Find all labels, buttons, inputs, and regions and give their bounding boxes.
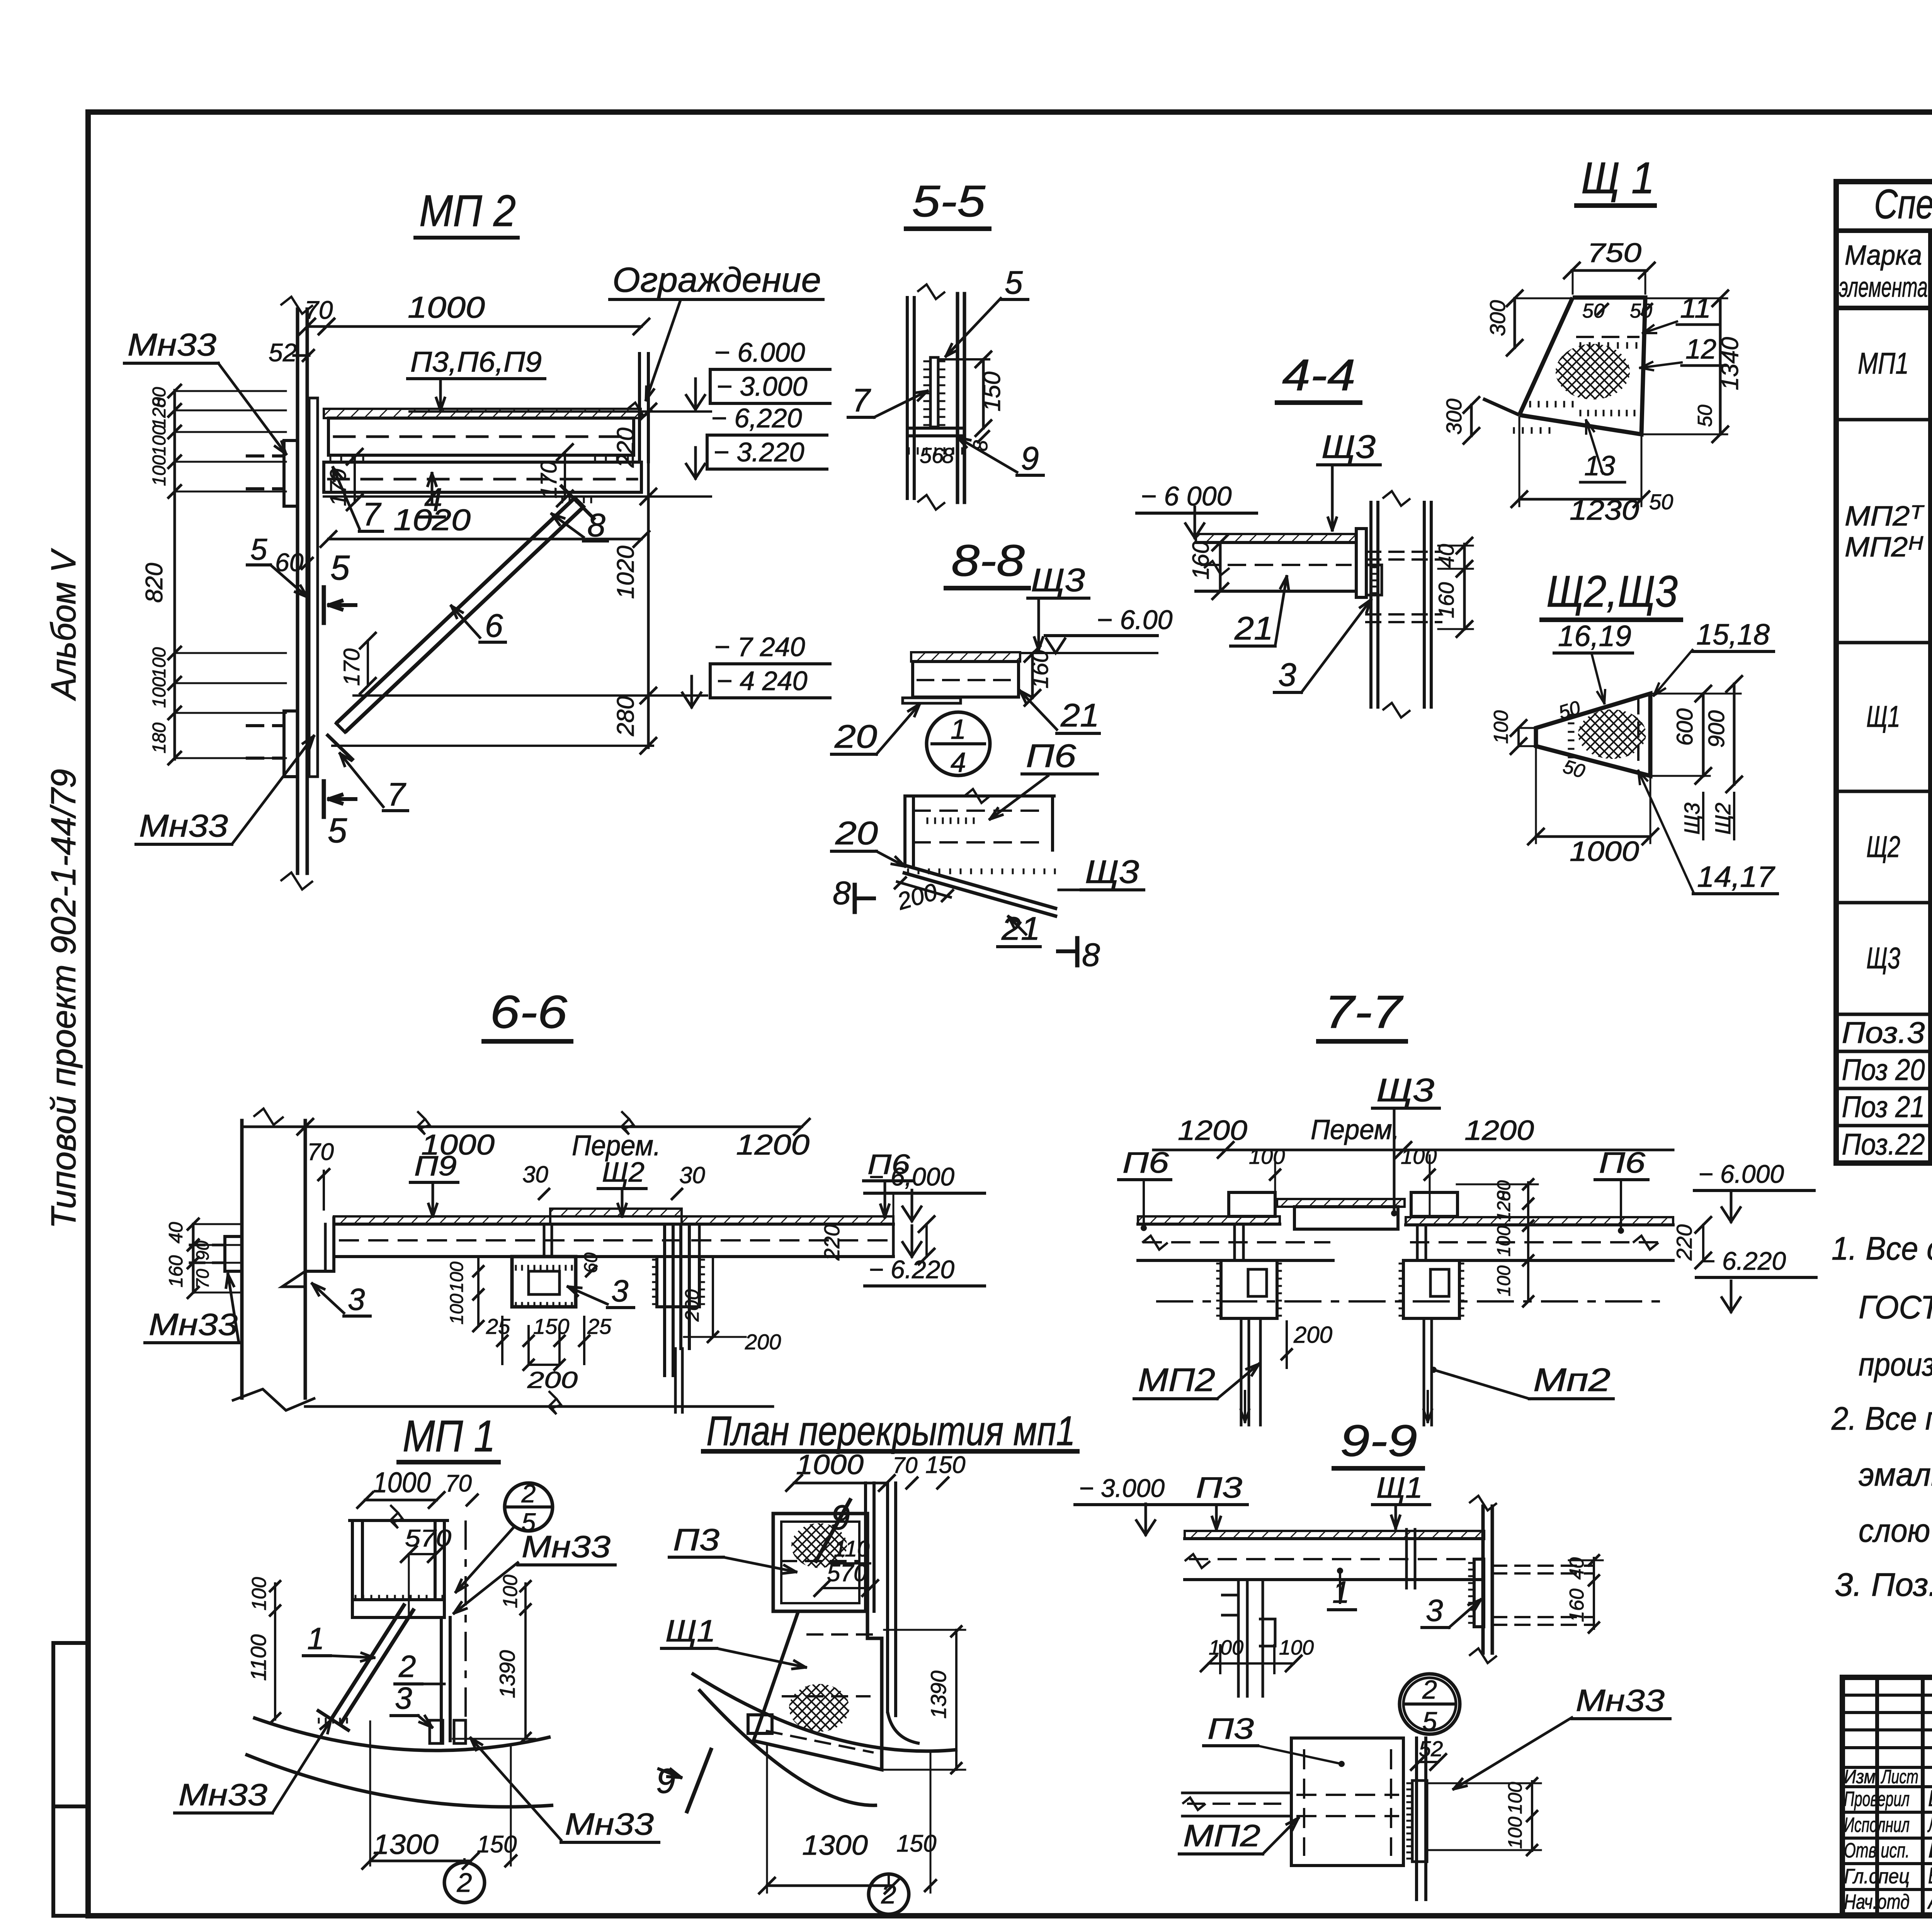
svg-text:Арсенов: Арсенов bbox=[1927, 1889, 1932, 1914]
svg-text:40: 40 bbox=[165, 1222, 187, 1243]
МП1: vertical beam going down bbox=[440, 1617, 443, 1741]
svg-text:2: 2 bbox=[1422, 1675, 1437, 1704]
svg-text:Мн33: Мн33 bbox=[1576, 1683, 1665, 1718]
svg-text:900: 900 bbox=[1704, 710, 1729, 748]
svg-text:300: 300 bbox=[1485, 300, 1510, 336]
svg-text:Мн33: Мн33 bbox=[179, 1777, 267, 1812]
svg-text:3: 3 bbox=[611, 1274, 629, 1308]
svg-text:2: 2 bbox=[521, 1479, 536, 1508]
svg-text:№№: №№ bbox=[1929, 246, 1932, 272]
svg-text:200: 200 bbox=[527, 1367, 578, 1393]
9-9 lower: right dims 100 100 bbox=[1531, 1781, 1533, 1851]
6-6: middle hanger box Щ2 bbox=[512, 1257, 576, 1307]
svg-text:100: 100 bbox=[1494, 1265, 1514, 1296]
svg-text:МП1: МП1 bbox=[1858, 346, 1909, 380]
svg-text:600: 600 bbox=[1672, 708, 1697, 746]
svg-text:160: 160 bbox=[165, 1255, 187, 1287]
Щ1: weld tick groups bottom bbox=[1529, 402, 1531, 406]
6-6: right deck piece continues bbox=[698, 1224, 701, 1257]
svg-text:100: 100 bbox=[1490, 710, 1512, 744]
svg-text:100: 100 bbox=[1504, 1782, 1526, 1814]
svg-text:− 6.220: − 6.220 bbox=[1700, 1247, 1786, 1275]
Щ2Щ3: funnel plate outline bbox=[1536, 694, 1650, 776]
Щ1: dim 300 left rotated bbox=[1514, 298, 1516, 348]
page frame: left border bbox=[85, 112, 91, 1916]
5-5: weld stitch strip bbox=[930, 357, 938, 427]
svg-text:Щ3: Щ3 bbox=[1031, 562, 1085, 598]
4-4: bracket with weld bbox=[1366, 565, 1382, 595]
4-4: beam with hatched top bbox=[1196, 534, 1356, 543]
svg-text:120: 120 bbox=[149, 397, 170, 428]
МП2: section mark 5 lower bbox=[322, 781, 326, 817]
svg-text:Щ2: Щ2 bbox=[602, 1157, 645, 1188]
9-9: right dims 40 160 bbox=[1593, 1558, 1595, 1629]
svg-text:5: 5 bbox=[250, 532, 267, 566]
svg-text:3: 3 bbox=[1278, 656, 1296, 693]
МП2: concrete wall column bbox=[296, 309, 299, 873]
МП2: right dim chain bbox=[647, 410, 650, 748]
9-9: deck gap break bbox=[1405, 1529, 1408, 1588]
svg-text:− 3.220: − 3.220 bbox=[713, 437, 804, 467]
МП2: lower channel beam item 4 bbox=[324, 462, 641, 492]
svg-text:Поз 21: Поз 21 bbox=[1842, 1090, 1925, 1124]
svg-text:− 6.000: − 6.000 bbox=[1698, 1160, 1784, 1188]
7-7: middle plate Щ3 raised bbox=[1277, 1199, 1405, 1207]
svg-text:1020: 1020 bbox=[612, 546, 639, 599]
7-7: right hanger assembly bbox=[1411, 1192, 1458, 1216]
план: dims 1000 70 150 bbox=[794, 1482, 887, 1485]
4-4: column bbox=[1369, 502, 1372, 707]
svg-text:2: 2 bbox=[398, 1649, 416, 1684]
9-9: bolts dashed right bbox=[1492, 1565, 1592, 1567]
svg-text:7: 7 bbox=[362, 496, 382, 532]
svg-text:− 3.000: − 3.000 bbox=[1079, 1474, 1165, 1502]
title block: left stamp rows bbox=[1842, 1694, 1932, 1697]
svg-text:Щ3: Щ3 bbox=[1321, 429, 1376, 465]
6-6: hanger dims 100 100 60 bbox=[477, 1257, 480, 1326]
svg-text:Мн33: Мн33 bbox=[149, 1307, 238, 1342]
svg-text:750: 750 bbox=[1587, 238, 1641, 268]
svg-text:150: 150 bbox=[979, 372, 1005, 412]
7-7: left hanger assembly bbox=[1229, 1192, 1275, 1216]
svg-text:2: 2 bbox=[457, 1867, 472, 1898]
6-6: deck beam band bbox=[334, 1223, 893, 1226]
план: plate rectangle bbox=[773, 1514, 867, 1611]
svg-text:− 6,000: − 6,000 bbox=[869, 1162, 954, 1191]
svg-text:7: 7 bbox=[852, 382, 871, 418]
svg-text:3: 3 bbox=[395, 1681, 412, 1715]
план: axis circle 2 bbox=[869, 1874, 909, 1914]
6-6: dim 200 below bbox=[529, 1364, 560, 1366]
6-6: dim 220 and elevations right bbox=[892, 1224, 895, 1257]
svg-text:1: 1 bbox=[307, 1621, 325, 1656]
svg-text:570: 570 bbox=[405, 1525, 451, 1552]
spec table: row lines bbox=[1930, 344, 1932, 347]
svg-text:Поз.3: Поз.3 bbox=[1842, 1015, 1925, 1049]
план: vertical beam lines bbox=[864, 1483, 867, 1611]
title block: left stamp columns bbox=[1875, 1677, 1879, 1915]
svg-text:МП2: МП2 bbox=[1183, 1818, 1260, 1853]
svg-text:1200: 1200 bbox=[1178, 1115, 1247, 1146]
svg-text:Поз.22: Поз.22 bbox=[1842, 1127, 1925, 1161]
svg-text:52: 52 bbox=[1419, 1736, 1443, 1761]
5-5: column double lines bbox=[906, 298, 909, 498]
svg-text:− 3.000: − 3.000 bbox=[716, 371, 808, 401]
svg-text:П6: П6 bbox=[1599, 1146, 1646, 1179]
svg-text:110: 110 bbox=[834, 1536, 869, 1561]
spec table: title row line bbox=[1836, 228, 1932, 233]
МП2: diagonal strut item 6 bbox=[336, 498, 575, 723]
Щ1: dim 1340 right rotated bbox=[1719, 298, 1722, 434]
МП1: bottom connection plates bbox=[430, 1720, 443, 1743]
svg-text:4: 4 bbox=[951, 747, 966, 778]
svg-text:100: 100 bbox=[447, 1294, 467, 1325]
svg-text:− 7 240: − 7 240 bbox=[714, 632, 805, 662]
svg-text:МП2: МП2 bbox=[1138, 1362, 1215, 1398]
svg-text:70: 70 bbox=[445, 1470, 472, 1497]
svg-text:1000: 1000 bbox=[796, 1449, 864, 1480]
svg-text:14,17: 14,17 bbox=[1697, 861, 1776, 893]
svg-text:1000: 1000 bbox=[408, 290, 485, 324]
9-9 lower: horizontal dashed beam lines bbox=[1182, 1792, 1291, 1794]
svg-text:20: 20 bbox=[834, 718, 878, 755]
8-8 lower: sloped strip Щ3 bbox=[903, 865, 1057, 909]
svg-text:100: 100 bbox=[447, 1262, 467, 1293]
МП2: wall plate vertical strip bbox=[308, 398, 311, 777]
svg-text:300: 300 bbox=[1442, 399, 1466, 435]
svg-text:1300: 1300 bbox=[802, 1830, 868, 1861]
svg-text:280: 280 bbox=[612, 696, 639, 736]
svg-text:70: 70 bbox=[307, 1139, 334, 1165]
svg-text:100: 100 bbox=[1494, 1226, 1514, 1257]
svg-text:5: 5 bbox=[1005, 264, 1023, 301]
svg-text:слою грунта ГФ-020.: слою грунта ГФ-020. bbox=[1859, 1512, 1932, 1549]
spec table: header verticals bbox=[1928, 231, 1932, 1163]
6-6: deck hatched plate middle segment bbox=[550, 1209, 682, 1216]
svg-text:9-9: 9-9 bbox=[1340, 1416, 1417, 1466]
svg-text:8: 8 bbox=[1082, 937, 1100, 973]
margin stamp box bottom-left bbox=[53, 1643, 89, 1916]
5-5: horizontal plate with welds bbox=[907, 427, 964, 430]
6-6: right hanger assembly bbox=[663, 1224, 666, 1376]
Щ2Щ3: weld ticks inside bbox=[1569, 714, 1573, 716]
svg-text:220: 220 bbox=[1672, 1225, 1696, 1261]
svg-text:170: 170 bbox=[326, 469, 351, 506]
9-9: bracket on column bbox=[1474, 1559, 1484, 1627]
svg-text:Щ2,Щ3: Щ2,Щ3 bbox=[1546, 567, 1678, 616]
МП1: detail circle 2/5 with leader bbox=[505, 1483, 553, 1531]
9-9: dims 100 100 bottom left bbox=[1219, 1645, 1221, 1673]
svg-text:220: 220 bbox=[820, 1225, 844, 1261]
9-9: hanger below deck bbox=[1237, 1580, 1240, 1696]
svg-text:Перем.: Перем. bbox=[1311, 1114, 1400, 1145]
svg-text:180: 180 bbox=[149, 723, 170, 753]
svg-text:1390: 1390 bbox=[926, 1670, 951, 1719]
svg-text:Проверил: Проверил bbox=[1844, 1787, 1910, 1811]
svg-text:100: 100 bbox=[499, 1575, 522, 1608]
svg-text:Мн33: Мн33 bbox=[139, 808, 228, 844]
svg-text:100: 100 bbox=[1504, 1816, 1526, 1849]
6-6: left dims 40 160 90 70 bbox=[192, 1224, 195, 1293]
Щ2Щ3: right dims 600 900 bbox=[1702, 694, 1705, 776]
svg-text:Лист: Лист bbox=[1881, 1766, 1918, 1787]
svg-text:Щ3: Щ3 bbox=[1680, 803, 1704, 835]
МП1: diagonal strut bbox=[332, 1604, 405, 1719]
svg-text:ГОСТ 9467-75. Толщина сварных: ГОСТ 9467-75. Толщина сварных швов 6мм. … bbox=[1859, 1289, 1932, 1325]
svg-text:Власенко: Власенко bbox=[1928, 1863, 1932, 1888]
svg-text:70: 70 bbox=[893, 1453, 918, 1478]
svg-text:25: 25 bbox=[587, 1314, 612, 1338]
svg-text:40: 40 bbox=[1434, 544, 1458, 568]
9-9: detail circle 2/5 bbox=[1400, 1674, 1460, 1734]
svg-text:8: 8 bbox=[587, 507, 605, 543]
svg-text:5: 5 bbox=[330, 549, 350, 587]
МП2: embedded plate Мн33 upper bbox=[284, 440, 298, 506]
svg-text:16,19: 16,19 bbox=[1558, 620, 1631, 653]
svg-text:1200: 1200 bbox=[736, 1129, 810, 1161]
svg-text:160: 160 bbox=[1434, 582, 1458, 618]
Щ1: crosshatch blob bbox=[1556, 344, 1630, 400]
6-6: deck hatched plate left segment bbox=[334, 1216, 550, 1224]
Щ1: dim 1230 bottom bbox=[1519, 498, 1641, 501]
МП1: strut lower end plate bbox=[317, 1710, 350, 1731]
svg-text:90: 90 bbox=[192, 1240, 213, 1260]
svg-text:Поз 20: Поз 20 bbox=[1842, 1053, 1925, 1087]
6-6: deck hatched plate right segment bbox=[682, 1216, 893, 1224]
svg-text:200: 200 bbox=[745, 1330, 781, 1354]
5-5: dim 150 bbox=[982, 359, 985, 428]
Щ1: plate outline bbox=[1519, 298, 1645, 434]
4-4: right dim 40 160 bbox=[1463, 544, 1466, 629]
svg-text:Боровик: Боровик bbox=[1928, 1786, 1932, 1811]
svg-text:20: 20 bbox=[835, 815, 878, 851]
svg-text:21: 21 bbox=[1234, 610, 1273, 646]
9-9: column right bbox=[1481, 1506, 1485, 1653]
8-8 lower: box П6 bbox=[903, 796, 906, 865]
svg-text:70: 70 bbox=[304, 296, 333, 324]
svg-text:Щ3: Щ3 bbox=[1085, 854, 1139, 890]
план: hatch blob funnel bbox=[789, 1684, 849, 1732]
svg-text:100: 100 bbox=[1279, 1636, 1314, 1659]
svg-text:− 6.220: − 6.220 bbox=[869, 1255, 954, 1284]
6-6: left wall column bbox=[240, 1121, 244, 1398]
svg-text:56: 56 bbox=[920, 443, 944, 468]
МП1: channel plan outline bbox=[351, 1520, 354, 1600]
svg-text:П3: П3 bbox=[1196, 1471, 1242, 1504]
МП2: dim 1000 top bbox=[327, 325, 641, 328]
svg-text:25: 25 bbox=[486, 1314, 510, 1338]
МП2: dim 1020 mid bbox=[328, 538, 641, 541]
svg-text:15,18: 15,18 bbox=[1696, 618, 1770, 651]
план: funnel plate outline bbox=[753, 1611, 882, 1770]
svg-text:производить по всему контуру: производить по всему контуру детали. bbox=[1859, 1346, 1932, 1383]
svg-text:60: 60 bbox=[581, 1252, 601, 1273]
svg-text:Щ3: Щ3 bbox=[1376, 1072, 1434, 1108]
svg-text:21: 21 bbox=[1060, 697, 1099, 733]
4-4: end plate bbox=[1356, 529, 1366, 597]
svg-text:1000: 1000 bbox=[1570, 836, 1639, 867]
6-6: left embed plate with anchors bbox=[225, 1236, 242, 1271]
svg-text:50: 50 bbox=[1630, 300, 1652, 322]
svg-text:2. Все поверхности металлоко: 2. Все поверхности металлоконструкций ок… bbox=[1831, 1400, 1932, 1437]
svg-text:1230: 1230 bbox=[1570, 495, 1639, 526]
svg-text:Щ1: Щ1 bbox=[665, 1614, 716, 1648]
svg-text:1340: 1340 bbox=[1717, 337, 1743, 390]
svg-text:МП2ᵀ: МП2ᵀ bbox=[1845, 501, 1925, 532]
8-8: detail circle 1/4 bbox=[927, 712, 990, 776]
svg-text:П3,П6,П9: П3,П6,П9 bbox=[410, 346, 542, 378]
svg-text:5: 5 bbox=[328, 811, 347, 850]
svg-text:5: 5 bbox=[1422, 1707, 1437, 1736]
svg-text:Марка: Марка bbox=[1845, 240, 1922, 271]
svg-text:50: 50 bbox=[1694, 405, 1716, 427]
svg-text:1200: 1200 bbox=[1464, 1115, 1534, 1146]
svg-text:− 6.00: − 6.00 bbox=[1097, 605, 1173, 635]
план: arcs bbox=[692, 1673, 957, 1751]
Щ2Щ3: dim 100 left bbox=[1517, 728, 1520, 746]
svg-text:1020: 1020 bbox=[393, 503, 471, 537]
page frame: top border bbox=[88, 109, 1932, 115]
svg-text:МП2ᴴ: МП2ᴴ bbox=[1845, 532, 1923, 563]
svg-text:7-7: 7-7 bbox=[1325, 986, 1404, 1038]
svg-text:50: 50 bbox=[1649, 490, 1673, 514]
svg-text:100: 100 bbox=[1401, 1144, 1437, 1168]
6-6: deck left end step bbox=[305, 1216, 334, 1271]
svg-text:Щ2: Щ2 bbox=[1711, 803, 1735, 835]
title block: outer frame bbox=[1842, 1677, 1932, 1915]
svg-text:160: 160 bbox=[1566, 1588, 1588, 1622]
svg-text:70: 70 bbox=[192, 1269, 213, 1289]
svg-text:120: 120 bbox=[1494, 1191, 1514, 1222]
Щ1: inner dashed line with welds bbox=[1577, 336, 1638, 338]
svg-text:160: 160 bbox=[1188, 541, 1214, 580]
9-9: deck band bbox=[1185, 1531, 1484, 1539]
svg-text:Альбом V: Альбом V bbox=[44, 548, 83, 701]
svg-text:170: 170 bbox=[339, 648, 364, 686]
Щ2Щ3: dim 1000 bottom bbox=[1536, 835, 1650, 838]
7-7: centerline bbox=[1157, 1300, 1662, 1303]
svg-text:− 6,220: − 6,220 bbox=[711, 403, 802, 433]
svg-text:− 6 000: − 6 000 bbox=[1141, 481, 1232, 511]
МП1: dim 1100 rotated bbox=[274, 1612, 276, 1719]
Щ1: dim 300 left bottom bbox=[1470, 405, 1473, 436]
svg-text:170: 170 bbox=[536, 461, 561, 498]
6-6: dims 25 150 25 below hanger bbox=[501, 1317, 503, 1364]
svg-text:220: 220 bbox=[612, 428, 639, 468]
9-9 lower: column piece bbox=[1415, 1738, 1418, 1900]
svg-text:План перекрытия мп1: План перекрытия мп1 bbox=[706, 1407, 1075, 1454]
7-7: dim 200 bbox=[1286, 1321, 1288, 1368]
4-4: dim 160 left bbox=[1219, 543, 1222, 591]
svg-text:− 6.000: − 6.000 bbox=[714, 337, 805, 367]
svg-text:Мн33: Мн33 bbox=[128, 327, 216, 362]
план: funnel inner dashes bbox=[808, 1633, 874, 1636]
svg-text:Нач.отд: Нач.отд bbox=[1844, 1890, 1910, 1913]
svg-text:3. Поз. 20 приварить к: 3. Поз. 20 приварить к площадке П6 до мо… bbox=[1835, 1566, 1932, 1603]
svg-text:Литвиненко: Литвиненко bbox=[1927, 1812, 1932, 1837]
svg-text:3: 3 bbox=[1426, 1593, 1443, 1628]
svg-text:Щ3: Щ3 bbox=[1866, 941, 1900, 975]
МП1: axis circle 2 bbox=[444, 1862, 485, 1903]
8-8 lower: dim 200 sloped bbox=[897, 882, 951, 897]
Щ1: dim 750 top bbox=[1572, 269, 1647, 272]
8-8 lower: section mark 8 left bbox=[853, 885, 857, 912]
svg-text:100: 100 bbox=[1249, 1144, 1285, 1168]
4-4: bolts dashed bbox=[1366, 551, 1441, 553]
svg-text:12: 12 bbox=[1685, 334, 1716, 365]
svg-text:570: 570 bbox=[827, 1560, 867, 1587]
svg-text:100: 100 bbox=[1209, 1636, 1243, 1659]
spec table: outer frame bbox=[1836, 182, 1932, 1163]
7-7: right dim chain 80 120 100 100 bbox=[1527, 1182, 1529, 1301]
svg-text:Мн33: Мн33 bbox=[565, 1807, 654, 1841]
svg-text:7: 7 bbox=[387, 776, 406, 813]
6-6: dim 200 right hanger bbox=[712, 1257, 714, 1337]
svg-text:поз.: поз. bbox=[1930, 274, 1932, 303]
svg-text:1: 1 bbox=[951, 714, 966, 745]
МП2: section mark 5 upper bbox=[322, 587, 326, 623]
МП1: dim 1390 rotated bbox=[524, 1611, 527, 1739]
svg-text:160: 160 bbox=[1027, 650, 1053, 689]
план: hatch blob in plate bbox=[791, 1523, 847, 1568]
svg-text:4-4: 4-4 bbox=[1282, 350, 1355, 400]
МП2: embedded plate Мн33 lower bbox=[284, 711, 298, 777]
svg-text:Щ1: Щ1 bbox=[1866, 699, 1900, 733]
МП2: platform deck hatched floor plate bbox=[324, 409, 641, 418]
svg-text:8: 8 bbox=[833, 875, 851, 911]
8-8 lower: section mark 8 right bbox=[1075, 938, 1080, 965]
svg-text:Щ1: Щ1 bbox=[1376, 1471, 1423, 1504]
svg-text:Исполнил: Исполнил bbox=[1844, 1813, 1910, 1837]
svg-text:эмалью ПФ-115 или ПФ-133 з: эмалью ПФ-115 или ПФ-133 за 3 раза по од… bbox=[1859, 1456, 1932, 1493]
svg-text:МП 2: МП 2 bbox=[419, 186, 516, 236]
svg-text:30: 30 bbox=[679, 1162, 705, 1188]
7-7: top dim line 1200 Перем 1200 bbox=[1153, 1149, 1673, 1151]
8-8: bottom flange strip bbox=[903, 698, 961, 703]
svg-text:5-5: 5-5 bbox=[912, 177, 986, 226]
svg-text:9: 9 bbox=[1021, 440, 1039, 476]
svg-text:52: 52 bbox=[269, 338, 297, 367]
Щ2Щ3: crosshatch blob bbox=[1578, 709, 1646, 759]
svg-text:1100: 1100 bbox=[246, 1634, 270, 1681]
9-9 lower: П3 dashed rectangle bbox=[1291, 1738, 1403, 1866]
svg-text:Ограждение: Ограждение bbox=[612, 261, 821, 299]
МП2: left dim chain bbox=[173, 390, 176, 759]
7-7: dim 220 right bbox=[1702, 1225, 1704, 1260]
МП1: dim 570 bbox=[409, 1553, 436, 1555]
svg-text:8: 8 bbox=[942, 443, 954, 468]
svg-text:6-6: 6-6 bbox=[490, 986, 567, 1038]
svg-text:Мп2: Мп2 bbox=[1533, 1362, 1611, 1398]
svg-text:100: 100 bbox=[149, 455, 170, 486]
МП2: railing post bbox=[638, 354, 641, 462]
svg-text:820: 820 bbox=[141, 563, 168, 603]
план: dim 1390 rotated bbox=[955, 1630, 957, 1770]
svg-text:Шкляр: Шкляр bbox=[1928, 1837, 1932, 1862]
svg-text:Щ 1: Щ 1 bbox=[1581, 153, 1655, 203]
план: dim 1300 150 bottom bbox=[767, 1884, 893, 1887]
9-9 lower: dim 52 bbox=[1419, 1761, 1438, 1763]
svg-text:6: 6 bbox=[485, 607, 503, 644]
МП2: strut end weld plates bbox=[560, 485, 595, 520]
svg-text:150: 150 bbox=[533, 1314, 569, 1338]
6-6: bottom break line bbox=[232, 1389, 315, 1410]
svg-text:100: 100 bbox=[149, 647, 170, 678]
7-7: deck band left bbox=[1138, 1216, 1280, 1224]
МП1: arcs wall bbox=[253, 1718, 551, 1750]
svg-text:− 4 240: − 4 240 bbox=[716, 666, 808, 696]
8-8: box with hatched top bbox=[911, 652, 1020, 662]
